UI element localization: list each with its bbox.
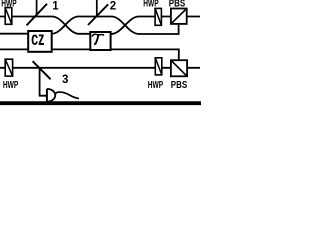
thick bottom rule [0, 101, 201, 105]
node mode1 slash [27, 4, 47, 26]
beam splitter PBS1 top-right [171, 9, 187, 24]
node mode1 marker vertical [36, 0, 38, 17]
svg-text:2: 2 [110, 1, 116, 13]
wire crossing2 down (top rail to PBS1 bottom) [112, 17, 179, 35]
svg-text:cz: cz [31, 28, 44, 49]
svg-text:3: 3 [62, 74, 68, 86]
wire mode3 bottom rail [0, 67, 200, 69]
gate CZ box [28, 28, 52, 52]
half-wave plate HWP4 bottom-right [155, 58, 162, 75]
node mode2 slash [88, 4, 108, 25]
wire mode1 top rail left [0, 16, 52, 18]
svg-text:1: 1 [52, 1, 59, 13]
svg-text:HWP: HWP [143, 0, 159, 9]
half-wave plate HWP2 top-right [155, 8, 161, 25]
gate T box [90, 32, 110, 50]
detector D [47, 89, 55, 102]
wire lower rail through CZ bottom to PBS2 top [0, 49, 179, 61]
svg-text:HWP: HWP [1, 0, 17, 9]
svg-text:HWP: HWP [3, 79, 19, 91]
wire mode2 mid rail into CZ [0, 33, 50, 35]
node mode3 slash [33, 61, 51, 79]
wire classical squiggle [55, 92, 79, 98]
wire crossing1 down (rail1 to mid) [52, 17, 91, 34]
beam splitter PBS2 bottom-right [171, 60, 187, 76]
wire crossing2 up (T out to top rail out) [111, 17, 200, 35]
half-wave plate HWP3 bottom-left [5, 59, 12, 76]
svg-text:PBS: PBS [171, 79, 187, 90]
half-wave plate HWP1 top-left [5, 8, 12, 25]
wire crossing1 up (CZ out to top rail) [52, 17, 112, 34]
svg-text:HWP: HWP [148, 79, 164, 91]
node mode2 marker vertical [96, 0, 98, 17]
wire detector tap [40, 68, 47, 96]
svg-text:PBS: PBS [169, 0, 185, 9]
